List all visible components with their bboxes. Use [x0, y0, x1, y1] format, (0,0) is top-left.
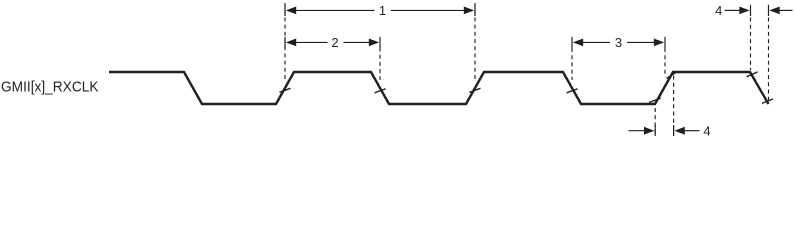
- svg-text:1: 1: [379, 3, 386, 18]
- dimension 4 bottom left line: [629, 130, 646, 132]
- waveform GMII[x]_RXCLK clock trace: [109, 72, 769, 104]
- dashed extension line at x=655 (rising edge 3 bottom corner, down): [654, 108, 656, 136]
- dashed extension line at x=475 (rising edge 2 mid): [474, 3, 476, 79]
- dimension 2 line right segment: [344, 41, 370, 43]
- svg-text:2: 2: [331, 35, 338, 50]
- dimension 2 end bar left: [284, 37, 286, 48]
- dimension 4 top end bar right: [768, 5, 770, 16]
- dimension 3 line left segment: [583, 41, 610, 43]
- dimension 1 line left segment: [296, 9, 375, 11]
- dimension 1 right arrowhead: [464, 7, 474, 15]
- dimension 4 top left line: [725, 9, 741, 11]
- dimension 4 bottom left arrowhead pointing right: [644, 127, 654, 135]
- tick mark rising edge 3 top corner: [667, 72, 678, 79]
- dashed extension line at x=750.5 (falling edge 4 top corner, up): [750, 18, 752, 71]
- dashed extension line at x=665 (rising edge 3 mid): [664, 48, 666, 77]
- dimension 3 line right segment: [627, 41, 654, 43]
- dashed extension line at x=673.6 (rising edge 3 top corner, down): [673, 76, 675, 137]
- dimension 2 right arrowhead: [369, 39, 379, 47]
- dimension 2 left arrowhead: [286, 39, 296, 47]
- dimension 4 top end bar left: [750, 5, 752, 16]
- svg-text:GMII[x]_RXCLK: GMII[x]_RXCLK: [1, 79, 99, 96]
- tick mark falling edge 2 midpoint: [375, 89, 386, 93]
- dimension 3 left arrowhead: [573, 39, 583, 47]
- dimension 4 bottom end bar left: [654, 125, 656, 136]
- svg-text:4: 4: [715, 3, 722, 18]
- dashed extension line at x=768.5 (falling edge 4 bottom corner, up): [768, 18, 770, 102]
- dashed extension line at x=380 (falling edge 2 mid): [379, 48, 381, 81]
- dimension 4 bottom right line: [685, 130, 700, 132]
- svg-text:4: 4: [703, 124, 710, 136]
- tick mark rising edge 3 bottom corner: [649, 98, 661, 102]
- tick mark falling edge 3 midpoint: [567, 89, 578, 93]
- dimension 4 bottom right arrowhead pointing left: [674, 127, 684, 135]
- dimension 2 line left segment: [296, 41, 328, 43]
- dimension 1 end bar right: [474, 5, 476, 16]
- dimension 1 left arrowhead: [286, 7, 296, 15]
- tick mark falling edge 4 bottom corner: [762, 99, 773, 104]
- dashed extension line at x=285 (rising edge 1 mid): [284, 3, 286, 79]
- dimension 3 right arrowhead: [654, 39, 664, 47]
- dimension 3 end bar right: [664, 37, 666, 48]
- dimension 3 end bar left: [571, 37, 573, 48]
- dimension 1 line right segment: [391, 9, 464, 11]
- dimension 4 top right line: [780, 9, 793, 11]
- tick mark rising edge 1 midpoint: [280, 88, 291, 92]
- dimension 4 top right arrowhead pointing left: [769, 7, 779, 15]
- dashed extension line at x=572 (falling edge 3 mid): [571, 48, 573, 80]
- dimension 4 top left arrowhead pointing right: [739, 7, 749, 15]
- dimension 2 end bar right: [379, 37, 381, 48]
- dimension 4 bottom end bar right: [673, 125, 675, 136]
- svg-text:3: 3: [615, 35, 622, 50]
- tick mark falling edge 4 top corner: [747, 72, 758, 77]
- dimension 1 end bar left: [284, 5, 286, 16]
- tick mark rising edge 2 midpoint: [470, 88, 481, 92]
